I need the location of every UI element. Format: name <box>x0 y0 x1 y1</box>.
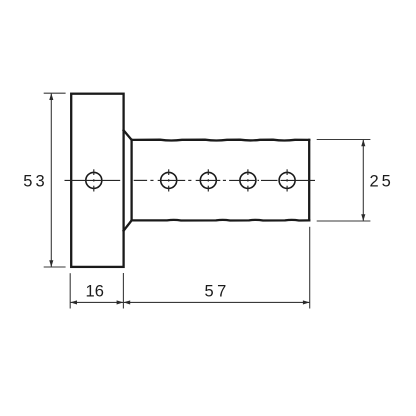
dimension 25: arrowheads <box>361 140 365 222</box>
svg-text:5: 5 <box>23 172 32 190</box>
dimension 16/57: arrowheads <box>70 300 310 304</box>
svg-text:2: 2 <box>370 172 379 190</box>
stem right edge <box>308 140 310 221</box>
dimensions 16 and 57: extension lines <box>70 227 310 309</box>
crosshair hole 4 <box>286 169 288 175</box>
hole 3 in stem <box>240 172 256 188</box>
svg-text:5: 5 <box>382 172 391 190</box>
crosshair hole 3 <box>247 169 249 175</box>
dimension 57: value text <box>205 283 227 301</box>
svg-text:5: 5 <box>205 283 214 301</box>
part outline: stem (shank) with wavy top and bottom edges <box>124 130 310 230</box>
dimension 25: extension lines <box>317 140 371 222</box>
hole 1 in stem <box>161 172 177 188</box>
svg-text:7: 7 <box>217 283 226 301</box>
fillet line top <box>124 130 132 140</box>
dimension 25: dimension line <box>362 140 364 222</box>
fillet line bottom <box>124 220 132 230</box>
dimension 53: value text <box>23 172 44 190</box>
dimension 53: arrowheads <box>49 93 53 267</box>
hole 2 in stem <box>200 172 216 188</box>
hole in head <box>86 172 102 188</box>
crosshair head hole <box>93 169 95 175</box>
part outline: head plate rectangle <box>71 94 123 267</box>
dimension 25: value text <box>370 172 391 190</box>
stem bottom edge <box>132 219 310 222</box>
dimension line 16 and 57 <box>70 301 310 303</box>
stem left edge (tangent line) <box>130 140 132 221</box>
svg-text:1: 1 <box>86 283 95 301</box>
crosshair hole 1 <box>168 169 170 175</box>
svg-text:6: 6 <box>95 283 104 301</box>
hole circles <box>86 172 295 188</box>
svg-text:3: 3 <box>36 172 45 190</box>
horizontal centerline (dash-dot) <box>65 179 316 181</box>
stem top edge <box>132 139 310 142</box>
dimension 53: dimension line <box>50 93 52 267</box>
dimension 16: value text <box>86 283 104 301</box>
crosshair hole 2 <box>207 169 209 175</box>
hole 4 in stem <box>279 172 295 188</box>
vertical centerline crosshairs at each hole <box>94 169 287 191</box>
dimension 53: extension lines <box>44 93 66 267</box>
